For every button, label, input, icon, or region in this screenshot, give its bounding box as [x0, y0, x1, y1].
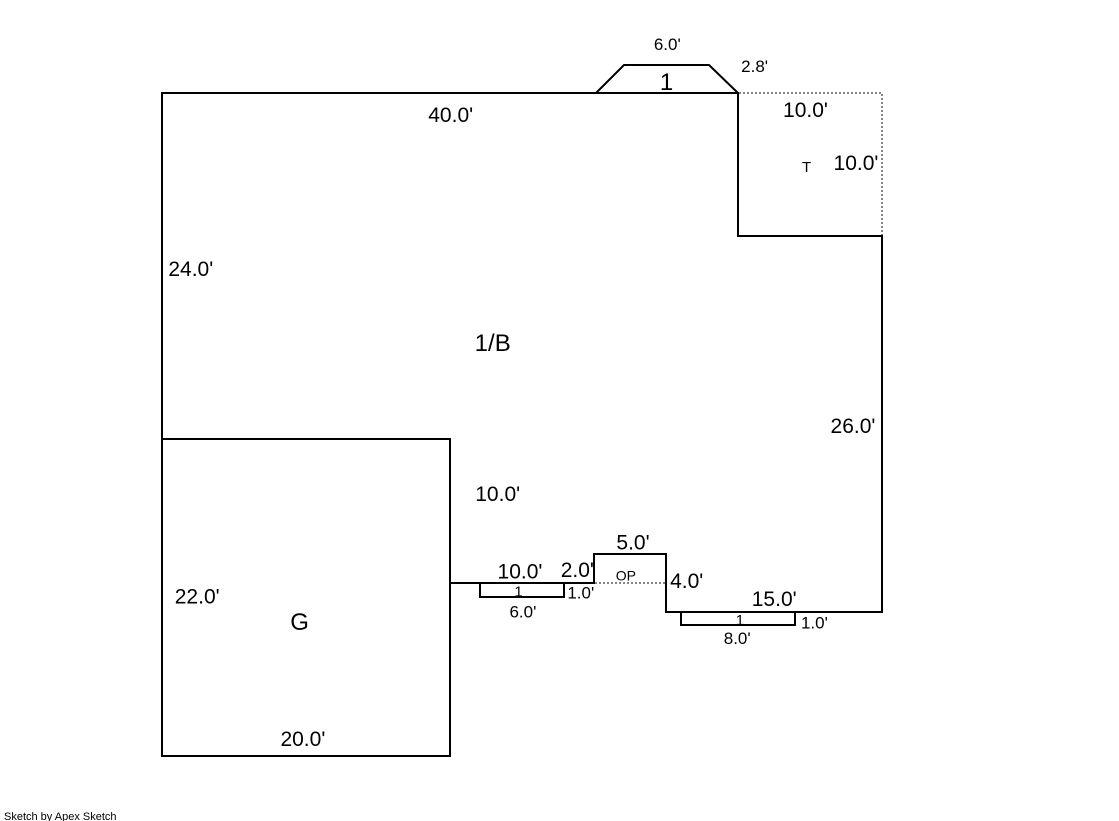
wire OP dotted line: [595, 582, 665, 584]
node porch trapezoid 1: [596, 65, 738, 93]
svg-text:15.0': 15.0': [752, 588, 797, 611]
svg-text:10.0': 10.0': [783, 99, 828, 122]
svg-text:2.0': 2.0': [561, 559, 594, 582]
svg-text:1/B: 1/B: [475, 330, 511, 357]
wire T patio dotted outline: [739, 93, 882, 235]
svg-text:40.0': 40.0': [428, 104, 473, 127]
wire main outline 1/B: [162, 93, 882, 612]
svg-text:6.0': 6.0': [509, 603, 536, 622]
svg-text:4.0': 4.0': [670, 570, 703, 593]
svg-text:20.0': 20.0': [280, 728, 325, 751]
svg-text:T: T: [802, 159, 811, 176]
svg-text:1.0': 1.0': [567, 584, 594, 603]
svg-text:OP: OP: [616, 568, 636, 584]
svg-text:10.0': 10.0': [834, 152, 879, 175]
svg-text:26.0': 26.0': [831, 415, 876, 438]
svg-text:22.0': 22.0': [175, 586, 220, 609]
svg-text:6.0': 6.0': [654, 35, 681, 54]
svg-text:5.0': 5.0': [616, 532, 649, 555]
svg-text:2.8': 2.8': [741, 57, 768, 76]
node step B rectangle: [681, 612, 795, 625]
svg-text:24.0': 24.0': [168, 258, 213, 281]
svg-text:10.0': 10.0': [498, 561, 543, 584]
svg-text:Sketch by Apex Sketch: Sketch by Apex Sketch: [4, 811, 117, 821]
svg-text:10.0': 10.0': [475, 483, 520, 506]
svg-text:8.0': 8.0': [724, 629, 751, 648]
svg-text:1.0': 1.0': [801, 614, 828, 633]
svg-text:G: G: [290, 609, 309, 636]
node G garage rectangle: [162, 439, 450, 756]
svg-text:1: 1: [514, 584, 522, 601]
svg-text:1: 1: [736, 612, 744, 629]
svg-text:1: 1: [660, 69, 673, 96]
node step A rectangle: [480, 583, 564, 597]
